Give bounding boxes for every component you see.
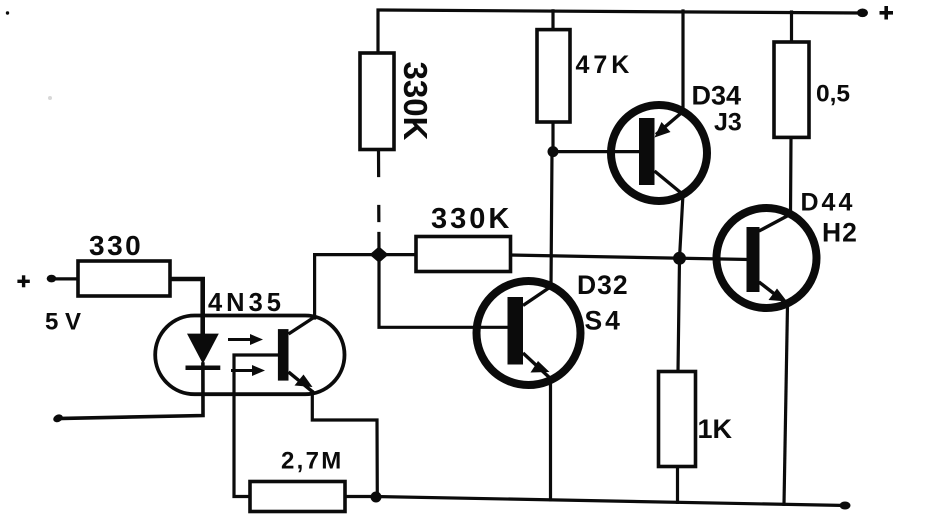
svg-text:0,5: 0,5 [816,80,850,107]
svg-text:D34: D34 [692,80,742,110]
svg-text:J3: J3 [714,109,742,137]
svg-text:H2: H2 [822,218,858,248]
svg-text:330: 330 [89,230,143,261]
svg-text:S4: S4 [585,306,623,336]
svg-text:2,7M: 2,7M [281,448,344,475]
svg-text:D44: D44 [801,188,856,216]
svg-text:47K: 47K [576,51,634,79]
svg-text:330K: 330K [397,62,434,141]
svg-text:D32: D32 [577,270,629,300]
svg-text:1K: 1K [698,414,733,444]
svg-text:330K: 330K [431,203,512,235]
svg-text:5 V: 5 V [45,309,81,336]
svg-text:4N35: 4N35 [208,289,285,317]
